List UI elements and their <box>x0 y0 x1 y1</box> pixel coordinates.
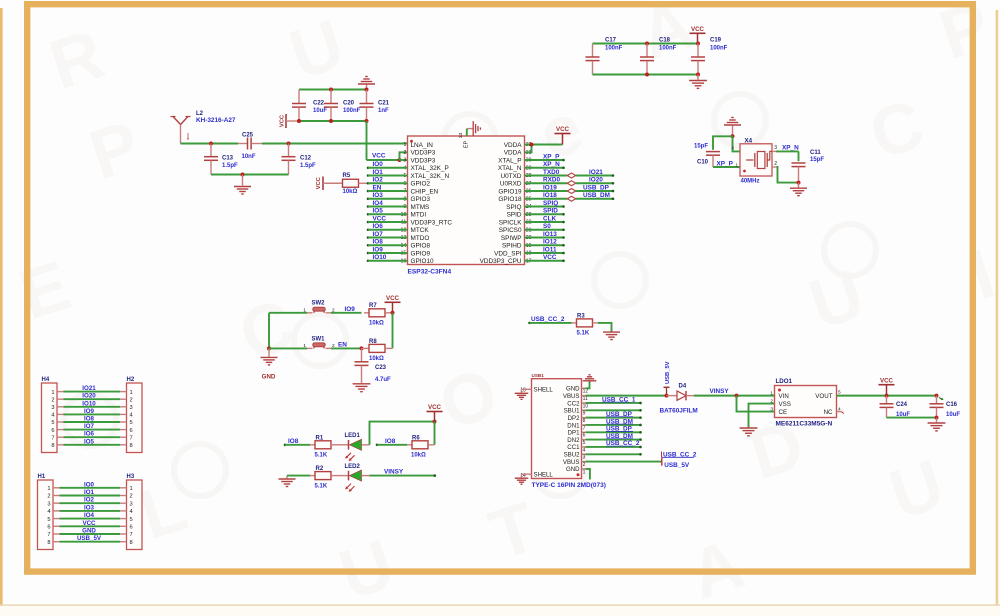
net label IO12 <box>543 239 557 246</box>
wire H4 pin2 to H2 <box>57 398 127 400</box>
wire GND pin12 to flipped ground <box>583 375 597 389</box>
svg-text:3: 3 <box>47 501 50 507</box>
svg-text:GPIO19: GPIO19 <box>498 188 522 195</box>
pin SHELL bottom (14) with ground <box>515 471 554 484</box>
svg-text:1: 1 <box>303 343 306 349</box>
label C22 <box>313 101 325 107</box>
node dot top rail C20 <box>329 88 333 92</box>
svg-text:3: 3 <box>51 405 54 411</box>
svg-text:GPIO3: GPIO3 <box>411 196 431 203</box>
label C24 <box>896 402 908 408</box>
net label USB_DM <box>583 192 610 199</box>
capacitor C12 <box>282 144 296 175</box>
svg-text:IO18: IO18 <box>543 192 557 199</box>
net label USB_DP row <box>606 411 633 418</box>
svg-text:GPIO2: GPIO2 <box>411 181 431 188</box>
svg-text:IO8: IO8 <box>288 438 299 445</box>
svg-text:3: 3 <box>130 501 133 507</box>
label R2 <box>316 466 324 472</box>
svg-text:TXD0: TXD0 <box>543 169 560 176</box>
node junction at C12 <box>287 142 291 146</box>
svg-text:C10: C10 <box>697 160 709 166</box>
net label XP_N <box>782 144 799 151</box>
svg-text:D4: D4 <box>679 384 687 390</box>
value 10uF <box>313 108 327 114</box>
svg-text:ME6211C33M5G-N: ME6211C33M5G-N <box>776 420 833 427</box>
svg-text:VDD_SPI: VDD_SPI <box>494 250 522 257</box>
capacitor C24 <box>880 396 894 418</box>
svg-text:4: 4 <box>51 413 54 419</box>
svg-text:LED1: LED1 <box>345 433 361 439</box>
svg-text:VDDA: VDDA <box>504 142 522 149</box>
svg-text:10kΩ: 10kΩ <box>343 189 358 195</box>
svg-text:7: 7 <box>583 425 586 431</box>
net label USB_CC_2 row <box>606 440 640 447</box>
svg-text:C16: C16 <box>946 402 958 408</box>
net label IO20 (header) <box>82 393 96 400</box>
label C18 <box>659 37 671 43</box>
diamond passthrough IO18 <box>567 196 575 201</box>
wire IO8 to R1 <box>284 444 310 447</box>
net label S0 <box>543 223 551 230</box>
wire VSS to ground <box>749 404 775 428</box>
ground below C16 <box>928 418 946 431</box>
label R8 <box>369 339 377 345</box>
ground below C13-C12 rail <box>234 175 251 195</box>
value 4.7uF <box>375 377 391 383</box>
node junction C16 top <box>935 394 939 398</box>
svg-text:2: 2 <box>51 397 54 403</box>
svg-text:2: 2 <box>130 494 133 500</box>
net label IO6 (header) <box>84 431 95 438</box>
node junction C24 top <box>885 394 889 398</box>
svg-text:10kΩ: 10kΩ <box>369 356 384 362</box>
svg-text:VBUS: VBUS <box>563 393 580 400</box>
pin numbers H4 <box>51 390 54 449</box>
wire net IO7 to U1 <box>367 236 408 239</box>
svg-text:VCC: VCC <box>316 176 322 189</box>
svg-text:1: 1 <box>130 390 133 396</box>
wire net IO9 to U1 <box>367 252 408 255</box>
ground below C11 <box>790 183 807 196</box>
wire H4 pin1 to H2 <box>57 391 127 393</box>
value 100nF <box>343 108 361 114</box>
net label RXD0 <box>543 177 560 184</box>
power port USB_5V above VBUS wire (rotated) <box>664 361 672 395</box>
svg-text:1: 1 <box>47 486 50 492</box>
label SW1 <box>312 336 326 342</box>
net label IO10 (header) <box>82 400 96 407</box>
svg-text:VDD3P3: VDD3P3 <box>411 150 436 157</box>
svg-text:USB_5V: USB_5V <box>77 535 102 542</box>
svg-text:LDO1: LDO1 <box>776 378 793 385</box>
ground below C23 <box>353 384 371 392</box>
resistor R8 <box>362 344 393 352</box>
svg-text:2: 2 <box>774 161 777 167</box>
net label USB_CC_2 (R3) <box>531 316 565 323</box>
svg-text:GND: GND <box>82 528 96 535</box>
wire net IO1 to U1 <box>367 174 408 177</box>
svg-text:100nF: 100nF <box>710 46 728 52</box>
svg-text:6: 6 <box>47 525 50 531</box>
svg-text:ESP32-C3FN4: ESP32-C3FN4 <box>408 269 452 276</box>
svg-text:9: 9 <box>583 411 586 417</box>
svg-text:15pF: 15pF <box>694 144 708 150</box>
net label IO8 (R6) <box>385 438 396 445</box>
value ME6211C33M5G-N <box>776 420 833 427</box>
node dot top rail C21 <box>365 88 369 92</box>
crystal X4 <box>740 144 772 176</box>
svg-text:1: 1 <box>770 391 773 397</box>
label C20 <box>343 101 355 107</box>
svg-text:7: 7 <box>51 435 54 441</box>
svg-text:4.7uF: 4.7uF <box>375 377 391 383</box>
svg-text:1.5pF: 1.5pF <box>300 163 316 169</box>
svg-text:VDDA: VDDA <box>504 150 522 157</box>
svg-text:2: 2 <box>403 150 406 156</box>
svg-text:IO0: IO0 <box>84 481 95 488</box>
svg-text:IO4: IO4 <box>84 512 95 519</box>
net label VCC <box>373 215 387 222</box>
svg-text:SPID: SPID <box>543 208 558 215</box>
svg-text:IO2: IO2 <box>84 497 95 504</box>
net label IO9 (SW2) <box>345 306 356 313</box>
wire VBUS pin2 to USB_5V port <box>586 461 662 463</box>
svg-text:IO9: IO9 <box>345 306 356 313</box>
svg-text:XTAL_32K_P: XTAL_32K_P <box>411 165 449 172</box>
svg-text:VCC: VCC <box>691 26 705 33</box>
svg-text:EN: EN <box>373 184 382 191</box>
svg-text:IO8: IO8 <box>385 438 396 445</box>
wire VDDA pin32 to VCC <box>525 145 563 153</box>
svg-text:IO21: IO21 <box>82 385 96 392</box>
label H4 <box>42 377 50 383</box>
svg-text:CE: CE <box>779 409 788 416</box>
svg-text:VCC: VCC <box>556 126 570 133</box>
label C11 <box>810 150 821 156</box>
net label IO2 (header) <box>84 497 95 504</box>
svg-text:USB_CC_2: USB_CC_2 <box>531 316 565 323</box>
pin names and numbers right side U1 <box>480 142 532 265</box>
wire net USB_DM <box>576 197 615 200</box>
net label USB_DM row <box>606 433 633 440</box>
wire H1 pin3 to H3 <box>53 502 127 504</box>
svg-text:IO6: IO6 <box>373 223 384 230</box>
wire VOUT to C24 C16 <box>837 395 937 397</box>
svg-text:VCC: VCC <box>543 254 557 261</box>
wire H1 pin2 to H3 <box>53 495 127 497</box>
value 5.1K (R3) <box>577 331 590 337</box>
svg-text:6: 6 <box>130 525 133 531</box>
svg-text:5: 5 <box>47 517 50 523</box>
value 5.1K (R1) <box>315 453 328 459</box>
svg-text:XP_N: XP_N <box>543 161 560 168</box>
svg-text:SPIHD: SPIHD <box>502 243 522 250</box>
label H1 <box>38 474 46 480</box>
pin NC stub <box>837 412 844 414</box>
pin numbers H3 <box>130 486 133 546</box>
wire IO8 to R6 <box>376 444 407 447</box>
pin names and numbers USB1 right side <box>563 386 588 476</box>
svg-text:C13: C13 <box>222 156 234 162</box>
wire net IO3 to U1 <box>367 197 408 200</box>
wire net IO11 from U1 <box>525 252 565 255</box>
net label VCC (header) <box>82 520 96 527</box>
LED LED1 <box>341 439 370 461</box>
net label IO11 <box>543 246 557 253</box>
svg-text:SW2: SW2 <box>312 301 326 307</box>
svg-text:H4: H4 <box>42 377 50 383</box>
svg-text:GPIO18: GPIO18 <box>498 196 522 203</box>
svg-text:4: 4 <box>130 509 133 515</box>
svg-text:CC2: CC2 <box>567 400 580 407</box>
value 10k ohm (R8) <box>369 356 384 362</box>
wire USB pin4 <box>586 446 642 449</box>
capacitor C25 (series) <box>238 138 262 150</box>
connector H3 body <box>127 480 143 550</box>
wire RF line antenna to C25 <box>181 143 239 145</box>
svg-text:CHIP_EN: CHIP_EN <box>411 188 439 195</box>
wire stub into pin3 <box>400 159 408 161</box>
wire net S0 from U1 <box>525 228 565 231</box>
node junction VDDA <box>530 143 534 147</box>
value KH-3216-A27 <box>196 117 236 124</box>
value 10k ohm (R7) <box>369 321 384 327</box>
svg-text:VCC: VCC <box>82 520 96 527</box>
node dots bottom rail <box>645 73 700 77</box>
wire H1 pin6 to H3 <box>53 525 127 527</box>
label X4 <box>745 137 753 144</box>
svg-text:USB_DP: USB_DP <box>583 184 610 191</box>
net label EN <box>373 184 382 191</box>
svg-text:NC: NC <box>824 409 833 416</box>
label ESP32-C3FN4 <box>408 269 452 276</box>
svg-text:IO19: IO19 <box>543 184 557 191</box>
label R3 <box>577 313 585 319</box>
wire net SPIQ from U1 <box>525 205 565 208</box>
net label USB_DP <box>583 184 610 191</box>
wire net IO2 to U1 <box>367 182 408 185</box>
value 1.5pF <box>300 163 316 169</box>
svg-text:DP1: DP1 <box>568 430 580 437</box>
svg-text:VDD3P3_RTC: VDD3P3_RTC <box>411 219 453 226</box>
svg-text:GND: GND <box>262 374 276 381</box>
svg-text:IO6: IO6 <box>84 431 95 438</box>
svg-text:7: 7 <box>130 532 133 538</box>
wire net IO0 to U1 <box>367 166 408 169</box>
wire USB pin3 <box>586 453 642 456</box>
svg-text:IO9: IO9 <box>373 246 384 253</box>
svg-text:R5: R5 <box>343 173 351 179</box>
wire C25 to chip pin 1 <box>262 143 408 145</box>
svg-text:2: 2 <box>47 494 50 500</box>
left edge gold strip <box>0 8 3 616</box>
label C25 <box>242 133 254 139</box>
svg-text:H2: H2 <box>127 377 135 383</box>
wire USB pin10 <box>586 402 642 405</box>
diamond passthrough TXD0 <box>567 173 575 178</box>
wire net IO8 to U1 <box>367 244 408 247</box>
svg-text:10nF: 10nF <box>242 154 256 160</box>
svg-text:DN2: DN2 <box>567 437 580 444</box>
resistor R5 <box>343 179 369 187</box>
capacitor C23 <box>355 348 369 383</box>
wire SW2 to R7 <box>331 312 362 314</box>
wire net IO18 from U1 <box>525 198 568 200</box>
wire gnd to C10 top <box>713 136 733 150</box>
net label XP_P <box>717 161 739 168</box>
wire H4 pin8 to H2 <box>57 444 127 446</box>
wire GND pin1 hook <box>586 469 590 480</box>
svg-text:SPICS0: SPICS0 <box>499 227 522 234</box>
net label VINSY (LDO) <box>710 388 730 395</box>
wire net SPID from U1 <box>525 213 565 216</box>
svg-text:2: 2 <box>130 397 133 403</box>
node junction C16 bottom <box>935 416 939 420</box>
svg-text:IO3: IO3 <box>84 504 95 511</box>
power flag VCC above LED block <box>427 404 443 421</box>
wire USB pin7 <box>586 424 642 427</box>
svg-text:C11: C11 <box>810 150 821 156</box>
svg-text:MTMS: MTMS <box>411 204 430 211</box>
capacitor C11 <box>792 163 806 183</box>
svg-text:SPIWP: SPIWP <box>501 235 522 242</box>
svg-text:IO20: IO20 <box>589 177 603 184</box>
net label GND (header) <box>82 528 96 535</box>
svg-text:5: 5 <box>130 517 133 523</box>
svg-text:5: 5 <box>130 420 133 426</box>
svg-text:IO5: IO5 <box>373 208 384 215</box>
resistor R3 <box>572 319 599 327</box>
svg-text:8: 8 <box>47 540 50 546</box>
value 1.5pF <box>222 163 238 169</box>
wire LED1 up to VCC node <box>370 422 435 445</box>
net port USB_CC_2 floating <box>662 451 697 458</box>
net label TXD0 <box>543 169 560 176</box>
svg-text:LED2: LED2 <box>345 464 361 470</box>
wire H4 pin4 to H2 <box>57 413 127 415</box>
net label IO21 <box>589 169 603 176</box>
wire VCC to pin3 <box>367 159 400 161</box>
wire D4 to LDO VIN <box>694 395 775 397</box>
svg-text:USB_5V: USB_5V <box>664 462 690 469</box>
net label VINSY <box>384 469 404 476</box>
wire bottom rail VCC <box>297 120 367 122</box>
net label IO6 <box>373 223 384 230</box>
svg-text:USB1: USB1 <box>532 373 545 378</box>
svg-text:10: 10 <box>583 403 589 409</box>
label SW2 <box>312 301 326 307</box>
label LDO1 <box>776 378 793 385</box>
svg-text:C12: C12 <box>300 156 312 162</box>
svg-text:BAT60JFILM: BAT60JFILM <box>660 407 698 414</box>
svg-text:IO10: IO10 <box>373 254 387 261</box>
svg-text:CLK: CLK <box>543 215 557 222</box>
svg-text:R2: R2 <box>316 466 324 472</box>
net label XP_N <box>543 161 560 168</box>
svg-text:100nF: 100nF <box>343 108 361 114</box>
svg-text:10uF: 10uF <box>946 412 960 418</box>
svg-text:1: 1 <box>303 307 306 313</box>
svg-text:3: 3 <box>774 145 777 151</box>
wire H1 pin8 to H3 <box>53 541 127 543</box>
svg-text:VSS: VSS <box>779 401 791 408</box>
svg-text:IO20: IO20 <box>82 393 96 400</box>
label C12 <box>300 156 312 162</box>
power flag VCC above C19 <box>690 26 706 44</box>
svg-text:VBUS: VBUS <box>563 459 580 466</box>
svg-text:VOUT: VOUT <box>815 393 832 400</box>
svg-text:6: 6 <box>583 433 586 439</box>
node dots bottom rail <box>297 119 369 123</box>
svg-text:IO1: IO1 <box>84 489 95 496</box>
svg-text:33: 33 <box>458 133 464 139</box>
svg-text:5.1K: 5.1K <box>577 331 590 337</box>
net label IO5 <box>373 208 384 215</box>
svg-text:8: 8 <box>130 443 133 449</box>
wire R7 to R8 vertical <box>392 313 394 349</box>
svg-text:IO5: IO5 <box>84 438 95 445</box>
value 40MHz <box>741 178 760 184</box>
svg-text:X4: X4 <box>745 137 753 144</box>
svg-text:IO12: IO12 <box>543 239 557 246</box>
power flag VCC at VDDA <box>555 126 571 145</box>
svg-text:XP_P: XP_P <box>543 153 560 160</box>
wire net XP_P from U1 <box>525 159 565 162</box>
svg-text:1: 1 <box>403 142 406 148</box>
power flag VCC above R7 <box>385 295 401 313</box>
pin SHELL top (13) with ground <box>515 386 554 399</box>
svg-text:3: 3 <box>403 158 406 164</box>
label C17 <box>605 37 617 43</box>
value 100nF <box>605 46 623 52</box>
pin numbers LDO1 <box>770 390 841 413</box>
node junction SW1 left <box>267 346 271 350</box>
net label IO7 (header) <box>84 423 95 430</box>
svg-text:C18: C18 <box>659 37 671 43</box>
svg-text:VCC: VCC <box>880 377 894 384</box>
svg-text:7: 7 <box>47 532 50 538</box>
net port USB_5V at VBUS pin2 <box>662 458 690 469</box>
net label IO8 <box>373 239 384 246</box>
switch SW1 <box>303 343 335 349</box>
svg-text:IO10: IO10 <box>82 400 96 407</box>
net label SPID <box>543 208 558 215</box>
svg-text:SPICLK: SPICLK <box>499 219 522 226</box>
svg-text:USB_DM: USB_DM <box>583 192 610 199</box>
svg-text:IO1: IO1 <box>373 169 384 176</box>
net label USB_DM row <box>606 418 633 425</box>
wire LED2 to VINSY <box>370 474 437 477</box>
power flag VCC above C24 <box>879 377 895 395</box>
capacitor C21 <box>360 90 374 122</box>
svg-text:VDD3P3: VDD3P3 <box>411 157 436 164</box>
value 100nF <box>659 46 677 52</box>
svg-text:100nF: 100nF <box>659 46 677 52</box>
svg-text:R6: R6 <box>412 435 420 441</box>
label C13 <box>222 156 234 162</box>
wire to SW1 <box>269 347 307 349</box>
svg-text:IO8: IO8 <box>84 416 95 423</box>
svg-text:C24: C24 <box>896 402 908 408</box>
svg-text:3: 3 <box>583 455 586 461</box>
svg-text:USB_5V: USB_5V <box>665 361 671 384</box>
net label IO7 <box>373 231 384 238</box>
label C23 <box>375 365 387 371</box>
svg-text:TYPE-C 16PIN 2MD(073): TYPE-C 16PIN 2MD(073) <box>532 482 606 489</box>
svg-text:SHELL: SHELL <box>534 386 554 393</box>
svg-text:C17: C17 <box>605 37 617 43</box>
